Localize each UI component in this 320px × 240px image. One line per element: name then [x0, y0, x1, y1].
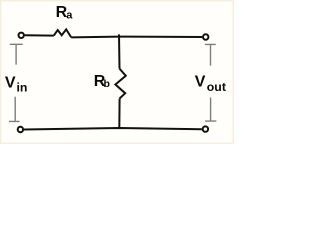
Vin bracket bottom — [9, 97, 20, 122]
terminal BR — [203, 126, 208, 131]
Vout bracket bottom — [205, 98, 216, 122]
terminal TR — [203, 34, 208, 39]
resistor Ra — [54, 29, 71, 37]
terminal BL — [18, 127, 23, 132]
Vout bracket top — [205, 44, 216, 65]
terminal TL — [19, 33, 24, 38]
resistor Rb — [115, 69, 125, 99]
wire bottom rail — [24, 128, 202, 130]
wire top-left — [25, 34, 54, 36]
wire middle vertical top — [118, 34, 121, 68]
wire middle vertical bottom — [118, 99, 120, 129]
Vin bracket top — [10, 44, 23, 64]
wire top-right — [71, 36, 202, 39]
